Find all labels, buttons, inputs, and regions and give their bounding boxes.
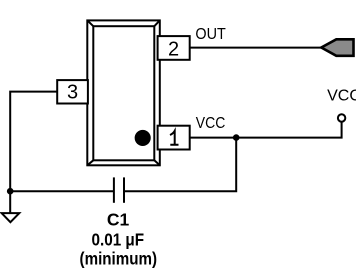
svg-text:VCC: VCC	[196, 115, 226, 132]
svg-text:VCC: VCC	[327, 88, 356, 105]
svg-text:0.01 μF: 0.01 μF	[92, 229, 145, 249]
svg-text:3: 3	[67, 82, 78, 104]
svg-text:(minimum): (minimum)	[80, 249, 158, 269]
svg-text:OUT: OUT	[195, 26, 226, 43]
svg-text:2: 2	[168, 38, 179, 60]
svg-text:C1: C1	[107, 209, 130, 229]
